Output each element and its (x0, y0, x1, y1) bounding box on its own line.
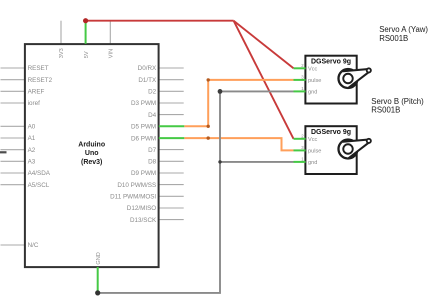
wire: green Servo A Vcc pin stub (294, 67, 306, 69)
svg-text:3: 3 (301, 145, 304, 150)
svg-text:pulse: pulse (308, 78, 321, 84)
wire: left pin stubs of Arduino (unconnected, gray) (1, 68, 25, 245)
svg-text:(Rev3): (Rev3) (81, 159, 102, 166)
svg-text:A5/SCL: A5/SCL (28, 182, 50, 189)
label: Servo B pin names (308, 137, 321, 166)
node: orange bendpoint at D5 wire corner (upper) (207, 78, 210, 81)
svg-text:RESET2: RESET2 (28, 77, 53, 84)
Arduino U1 box (25, 44, 159, 267)
svg-text:D0/RX: D0/RX (138, 65, 157, 72)
wire: green D6 pin stub (159, 137, 185, 139)
wire: orange D5 to Servo A pulse (184, 80, 293, 126)
node: gray junction dot servo A gnd corner (218, 89, 223, 94)
label: Servo A pin names (308, 67, 321, 96)
wire: right pin stubs of Arduino (unconnected, gray) (159, 68, 184, 220)
svg-text:D8: D8 (148, 159, 157, 166)
svg-text:DGServo 9g: DGServo 9g (311, 129, 351, 136)
wire: red diagonal to Servo A Vcc (234, 21, 294, 69)
node: gray junction dot servo B gnd tee (218, 160, 221, 163)
svg-text:pulse: pulse (308, 149, 321, 155)
servo horn icon (Servo B) (339, 139, 371, 159)
svg-text:1: 1 (301, 156, 304, 161)
svg-text:A2: A2 (28, 147, 36, 154)
svg-text:Servo A (Yaw): Servo A (Yaw) (379, 25, 428, 34)
svg-text:GND: GND (96, 252, 102, 264)
wire: stray wire stub at left image edge near A2 (0, 151, 7, 153)
svg-text:gnd: gnd (308, 160, 317, 166)
wire: 3V3 top pin stub (60, 21, 62, 44)
node: orange bendpoint on D6 wire (207, 136, 210, 139)
servo module box (Servo B) (305, 126, 356, 174)
svg-text:D5 PWM: D5 PWM (131, 124, 156, 131)
wire: gray ground from Servo A gnd to vertical bus and down to bottom (98, 91, 294, 293)
wire: green 5V pin stub (85, 21, 87, 44)
wire: red 5V bus horizontal from junction to bend (86, 20, 234, 22)
svg-text:A4/SDA: A4/SDA (28, 170, 51, 177)
wire: green D5 pin stub (159, 125, 185, 127)
servo horn icon (Servo A) (339, 68, 371, 88)
svg-text:RS001B: RS001B (371, 105, 400, 114)
label: Servo A (Yaw) RS001B (379, 25, 428, 43)
wire: green Servo A pulse pin stub (294, 79, 306, 81)
svg-text:A1: A1 (28, 135, 36, 142)
svg-text:2: 2 (301, 63, 304, 68)
svg-text:DGServo 9g: DGServo 9g (311, 58, 351, 65)
wire: red diagonal to Servo B Vcc (234, 21, 294, 139)
svg-text:D12/MISO: D12/MISO (127, 205, 156, 212)
svg-text:3: 3 (301, 74, 304, 79)
label: Arduino left pin names (28, 65, 53, 249)
svg-text:N/C: N/C (28, 242, 39, 249)
svg-text:1: 1 (301, 86, 304, 91)
svg-text:D13/SCK: D13/SCK (130, 217, 157, 224)
label: Servo B pin numbers (301, 133, 304, 161)
wire: green GND pin stub down to junction (97, 267, 99, 293)
label: Servo B (Pitch) RS001B (371, 97, 424, 115)
wire: green Servo B pulse pin stub (294, 149, 306, 151)
svg-text:RESET: RESET (28, 65, 49, 72)
svg-text:Vcc: Vcc (308, 67, 318, 73)
svg-text:D9 PWM: D9 PWM (131, 170, 156, 177)
label: Servo A pin numbers (301, 63, 304, 91)
wire: green Servo B Vcc pin stub (294, 138, 306, 140)
svg-text:VIN: VIN (109, 49, 115, 58)
svg-text:A0: A0 (28, 124, 36, 131)
svg-text:D7: D7 (148, 147, 157, 154)
wire: green Servo A gnd pin stub (294, 90, 306, 92)
svg-text:D6 PWM: D6 PWM (131, 135, 156, 142)
svg-text:D3 PWM: D3 PWM (131, 100, 156, 107)
svg-text:ioref: ioref (28, 100, 40, 107)
svg-text:3V3: 3V3 (59, 48, 65, 58)
wire: VIN top pin stub (109, 21, 111, 44)
svg-text:gnd: gnd (308, 90, 317, 96)
svg-text:2: 2 (301, 133, 304, 138)
label: Arduino right pin names (110, 65, 157, 224)
svg-text:RS001B: RS001B (379, 34, 408, 43)
wire: gray ground from Servo B gnd to vertical bus (220, 161, 294, 163)
svg-text:A3: A3 (28, 159, 36, 166)
wire: green Servo B gnd pin stub (294, 161, 306, 163)
label: Arduino Uno (Rev3) part name (78, 141, 105, 166)
svg-text:Uno: Uno (85, 150, 99, 157)
svg-text:Arduino: Arduino (78, 141, 105, 148)
svg-text:D1/TX: D1/TX (138, 77, 157, 84)
node: junction dot at GND wire bottom (95, 290, 100, 295)
wire: orange D6 to Servo B pulse (184, 138, 293, 150)
svg-text:Vcc: Vcc (308, 137, 318, 143)
svg-text:D4: D4 (148, 112, 157, 119)
node: red junction dot at 5V (83, 18, 88, 23)
node: orange bendpoint at D5 wire corner (lower) (207, 125, 210, 128)
svg-text:D10 PWM/SS: D10 PWM/SS (117, 182, 156, 189)
svg-text:AREF: AREF (28, 89, 45, 96)
svg-text:D2: D2 (148, 89, 157, 96)
svg-text:D11 PWM/MOSI: D11 PWM/MOSI (110, 194, 156, 201)
svg-text:5V: 5V (84, 51, 90, 58)
servo module box (Servo A) (305, 56, 356, 104)
